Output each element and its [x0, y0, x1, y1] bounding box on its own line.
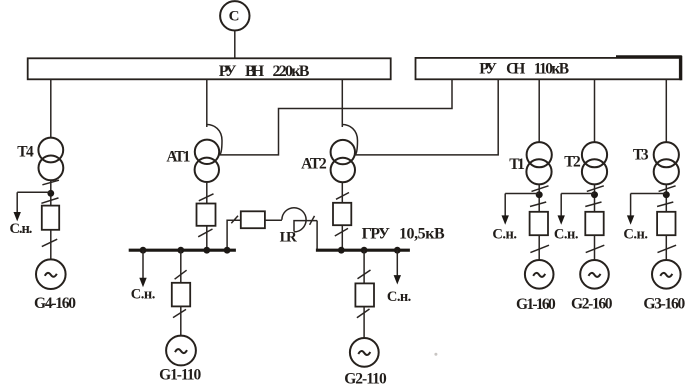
svg-text:G1-110: G1-110 — [159, 366, 201, 383]
svg-text:С.н.: С.н. — [554, 227, 579, 243]
svg-text:АТ2: АТ2 — [301, 156, 327, 173]
svg-text:С.н.: С.н. — [387, 289, 411, 305]
svg-text:G3-160: G3-160 — [643, 296, 685, 313]
svg-text:С.н.: С.н. — [492, 227, 517, 243]
svg-text:ГРУ: ГРУ — [362, 225, 391, 242]
svg-text:10,5кВ: 10,5кВ — [399, 225, 445, 242]
svg-text:G4-160: G4-160 — [34, 295, 76, 312]
svg-text:LR: LR — [280, 229, 297, 245]
svg-text:G2-110: G2-110 — [344, 371, 387, 388]
svg-text:110кВ: 110кВ — [534, 61, 569, 78]
svg-text:220кВ: 220кВ — [273, 63, 310, 80]
svg-text:РУ: РУ — [479, 61, 497, 78]
svg-text:Т2: Т2 — [564, 153, 581, 170]
svg-text:Т1: Т1 — [509, 156, 525, 173]
svg-text:Т4: Т4 — [17, 144, 34, 161]
svg-text:ВН: ВН — [245, 63, 265, 80]
svg-text:G1-160: G1-160 — [516, 296, 556, 313]
svg-text:СН: СН — [506, 61, 525, 78]
svg-text:С.н.: С.н. — [131, 286, 156, 302]
svg-text:С.н.: С.н. — [10, 221, 33, 237]
svg-text:С: С — [229, 8, 240, 24]
svg-text:АТ1: АТ1 — [166, 149, 190, 166]
svg-text:С.н.: С.н. — [623, 227, 648, 243]
svg-text:Т3: Т3 — [633, 146, 649, 163]
svg-text:РУ: РУ — [219, 63, 237, 80]
svg-text:G2-160: G2-160 — [571, 296, 613, 313]
